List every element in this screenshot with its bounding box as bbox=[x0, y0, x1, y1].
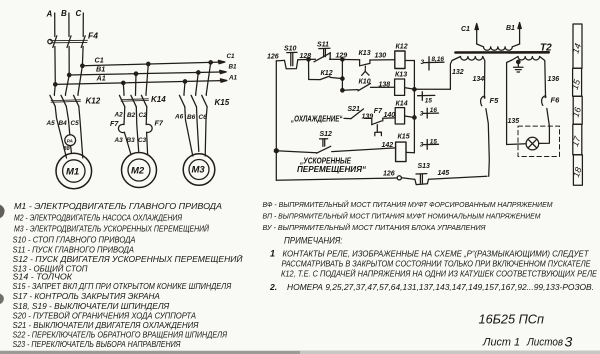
node rung K13 bbox=[341, 89, 344, 92]
motor M2 bbox=[122, 153, 157, 188]
motor M1 bbox=[56, 153, 92, 189]
ground symbol bbox=[514, 62, 523, 72]
svg-text:КОНТАКТЫ РЕЛЕ, ИЗОБРАЖЕННЫЕ: КОНТАКТЫ РЕЛЕ, ИЗОБРАЖЕННЫЕ НА СХЕМЕ „Р“… bbox=[283, 250, 590, 259]
svg-text:8,16: 8,16 bbox=[432, 56, 445, 63]
svg-text:K14: K14 bbox=[151, 95, 166, 104]
svg-text:S21 - ВЫКЛЮЧАТЕЛИ ДВИГАТЕЛЯ: S21 - ВЫКЛЮЧАТЕЛИ ДВИГАТЕЛЯ ОХЛАЖДЕНИЯ bbox=[13, 321, 200, 330]
svg-text:К12, Т.Е. С ПОДАЧЕЙ НАПРЯЖЕН: К12, Т.Е. С ПОДАЧЕЙ НАПРЯЖЕНИЯ НА ОДНИ И… bbox=[281, 270, 598, 279]
svg-text:В1: В1 bbox=[506, 25, 515, 32]
node: phase C to bus C1 bbox=[81, 64, 84, 67]
pushbutton S13 bbox=[415, 174, 429, 185]
svg-text:F7: F7 bbox=[110, 119, 119, 128]
svg-text:B3: B3 bbox=[127, 137, 136, 144]
svg-text:C: C bbox=[76, 9, 82, 18]
wire: drop A1 to K15 bbox=[183, 80, 186, 94]
transformer T2 core bbox=[456, 51, 549, 54]
svg-text:F7: F7 bbox=[374, 108, 383, 115]
svg-text:К12: К12 bbox=[396, 44, 408, 51]
svg-text:14: 14 bbox=[570, 42, 583, 55]
contactor K15 main contacts bbox=[179, 94, 207, 107]
svg-text:A3: A3 bbox=[114, 137, 124, 144]
ammeter PA bbox=[65, 135, 76, 146]
node: phase B to bus B1 bbox=[68, 73, 71, 76]
svg-text:C5: C5 bbox=[71, 120, 80, 127]
svg-text:1: 1 bbox=[270, 249, 275, 259]
scan smudge left 1 bbox=[0, 205, 5, 219]
svg-text:M3: M3 bbox=[192, 165, 206, 176]
svg-text:C1: C1 bbox=[461, 26, 470, 33]
svg-text:М1 - ЭЛЕКТРОДВИГАТЕЛЬ ГЛАВНОГ: М1 - ЭЛЕКТРОДВИГАТЕЛЬ ГЛАВНОГО ПРИВОДА bbox=[14, 202, 222, 211]
wire: left vertical rail bbox=[275, 61, 277, 180]
motor M3 bbox=[183, 154, 215, 186]
svg-text:130: 130 bbox=[375, 53, 387, 60]
svg-text:РАССМАТРИВАТЬ В ЗАКРЫТОМ СО: РАССМАТРИВАТЬ В ЗАКРЫТОМ СОСТОЯНИИ ТОЛЬК… bbox=[282, 260, 592, 269]
svg-text:S15 - ЗАПРЕТ ВКЛ ДГП ПРИ О: S15 - ЗАПРЕТ ВКЛ ДГП ПРИ ОТКРЫТОМ КОНИКЕ… bbox=[13, 282, 232, 291]
svg-text:A1: A1 bbox=[96, 74, 106, 83]
svg-text:B2: B2 bbox=[127, 112, 136, 119]
svg-text:3: 3 bbox=[565, 334, 573, 350]
svg-text:ВП - ВЫПРЯМИТЕЛЬНЫЙ МОСТ ПИТ: ВП - ВЫПРЯМИТЕЛЬНЫЙ МОСТ ПИТАНИЯ МУФТ НО… bbox=[263, 212, 541, 221]
node K14 output bbox=[413, 116, 416, 119]
svg-text:C3: C3 bbox=[138, 137, 147, 144]
svg-text:M1: M1 bbox=[66, 167, 79, 178]
contact S21 bbox=[344, 109, 372, 119]
svg-text:3: 3 bbox=[420, 142, 424, 149]
svg-text:126: 126 bbox=[383, 171, 395, 178]
lamp dashed enclosure bbox=[518, 126, 560, 156]
svg-text:3: 3 bbox=[420, 111, 424, 118]
schematic small labels bbox=[46, 9, 238, 178]
svg-text:126: 126 bbox=[267, 54, 279, 61]
node below 129 bbox=[341, 77, 344, 80]
svg-text:142: 142 bbox=[382, 142, 394, 149]
node K13 output bbox=[413, 88, 416, 91]
svg-text:S12: S12 bbox=[320, 131, 333, 138]
svg-text:PA: PA bbox=[67, 138, 73, 143]
svg-text:16: 16 bbox=[430, 107, 438, 114]
svg-text:134: 134 bbox=[473, 76, 485, 83]
svg-text:М2 - ЭЛЕКТРОДВИГАТЕЛЬ НАСОСА: М2 - ЭЛЕКТРОДВИГАТЕЛЬ НАСОСА ОХЛАЖДЕНИЯ bbox=[14, 213, 182, 222]
svg-text:К14: К14 bbox=[396, 101, 408, 108]
svg-text:ПРИМЕЧАНИЯ:: ПРИМЕЧАНИЯ: bbox=[284, 236, 343, 246]
svg-text:88: 88 bbox=[64, 146, 71, 152]
svg-text:15: 15 bbox=[425, 98, 433, 105]
coil K14 bbox=[395, 108, 404, 124]
phase line A bbox=[54, 13, 56, 37]
svg-text:К12: К12 bbox=[321, 70, 333, 77]
svg-text:K15: K15 bbox=[215, 98, 230, 107]
arrow C1 to transformer bbox=[475, 24, 478, 45]
svg-text:ПЕРЕМЕЩЕНИЯ“: ПЕРЕМЕЩЕНИЯ“ bbox=[297, 165, 366, 174]
svg-text:К13: К13 bbox=[359, 50, 371, 57]
svg-text:ВФ - ВЫПРЯМИТЕЛЬНЫЙ МОСТ ПИТ: ВФ - ВЫПРЯМИТЕЛЬНЫЙ МОСТ ПИТАНИЯ МУФТ ФО… bbox=[263, 200, 553, 209]
contactor K12 main contacts bbox=[50, 94, 81, 106]
svg-text:F5: F5 bbox=[490, 96, 500, 105]
svg-text:B: B bbox=[61, 9, 67, 18]
node S12 rung bbox=[274, 149, 278, 153]
svg-text:S23 - ПЕРЕКЛЮЧАТЕЛЬ ВЫБОРА Н: S23 - ПЕРЕКЛЮЧАТЕЛЬ ВЫБОРА НАПРАВЛЕНИЯ bbox=[13, 340, 181, 349]
wire: drop C1 to K14 bbox=[146, 62, 150, 94]
coil K12 bbox=[395, 51, 405, 69]
svg-text:A5: A5 bbox=[46, 120, 56, 127]
svg-text:S14 - ТОЛЧОК: S14 - ТОЛЧОК bbox=[13, 273, 74, 282]
wire: bottom rail bbox=[276, 176, 487, 181]
svg-text:F6: F6 bbox=[551, 96, 561, 105]
svg-text:15: 15 bbox=[570, 77, 583, 91]
svg-text:„ОХЛАЖДЕНИЕ“: „ОХЛАЖДЕНИЕ“ bbox=[290, 115, 342, 124]
svg-text:15: 15 bbox=[430, 138, 438, 145]
svg-text:145: 145 bbox=[438, 170, 450, 177]
svg-text:132: 132 bbox=[452, 69, 464, 76]
bus A1 bbox=[55, 79, 227, 85]
scan smudge left 2 bbox=[0, 294, 4, 305]
svg-text:17: 17 bbox=[570, 134, 583, 148]
svg-text:16: 16 bbox=[571, 106, 584, 119]
svg-text:НОМЕРА 9,25,27,37,47,57,64,13: НОМЕРА 9,25,27,37,47,57,64,131,137,143,1… bbox=[287, 283, 594, 292]
node: phase A to bus A1 bbox=[54, 83, 57, 86]
svg-text:C1: C1 bbox=[95, 56, 104, 65]
svg-text:A6: A6 bbox=[174, 114, 184, 121]
svg-text:S10: S10 bbox=[284, 46, 297, 53]
svg-text:S10 - СТОП ГЛАВНОГО ПРИВОДА: S10 - СТОП ГЛАВНОГО ПРИВОДА bbox=[13, 236, 136, 245]
pushbutton S12 bbox=[276, 139, 395, 154]
svg-text:B1: B1 bbox=[96, 65, 105, 74]
wire: bus to transformer secondary bbox=[414, 88, 450, 90]
thermal relay F7 heaters and K14 to M2 leads bbox=[118, 107, 152, 154]
sheet ref mark 3/16 bbox=[423, 108, 438, 118]
phase line C bbox=[82, 13, 84, 37]
svg-text:3: 3 bbox=[421, 59, 425, 66]
bus B1 bbox=[69, 70, 226, 75]
svg-text:138: 138 bbox=[379, 81, 391, 88]
breaker F4 bbox=[48, 36, 88, 48]
svg-text:C6: C6 bbox=[199, 114, 208, 121]
sheet ref mark 3/15 bbox=[423, 140, 438, 150]
svg-text:S17 - КОНТРОЛЬ ЗАКРЫТИЯ ЭКРА: S17 - КОНТРОЛЬ ЗАКРЫТИЯ ЭКРАНА bbox=[13, 292, 160, 301]
svg-text:B1: B1 bbox=[229, 64, 238, 71]
svg-text:C2: C2 bbox=[139, 112, 148, 119]
thermal contact F7 (control) bbox=[372, 118, 395, 136]
svg-text:A2: A2 bbox=[114, 112, 124, 119]
phase line B bbox=[68, 13, 70, 37]
svg-text:S11: S11 bbox=[317, 42, 329, 49]
sheet ref mark 15 bbox=[418, 92, 435, 101]
svg-text:129: 129 bbox=[336, 53, 348, 60]
svg-text:136: 136 bbox=[548, 76, 560, 83]
node transformer ground tap bbox=[517, 60, 520, 63]
wire: relay output bus bbox=[405, 61, 415, 153]
svg-text:M2: M2 bbox=[131, 166, 145, 177]
svg-text:К13: К13 bbox=[395, 72, 407, 79]
svg-text:К15: К15 bbox=[398, 134, 410, 141]
svg-text:М3 - ЭЛЕКТРОДВИГАТЕЛЬ УСКОРЕН: М3 - ЭЛЕКТРОДВИГАТЕЛЬ УСКОРЕННЫХ ПЕРЕМЕЩ… bbox=[14, 225, 209, 234]
svg-text:F4: F4 bbox=[88, 31, 98, 41]
svg-text:140: 140 bbox=[384, 112, 396, 119]
svg-text:F7: F7 bbox=[155, 119, 164, 128]
arrow B1 to transformer bbox=[518, 23, 521, 45]
svg-text:S22 - ПЕРЕКЛЮЧАТЕЛЬ ОБРАТНОГО: S22 - ПЕРЕКЛЮЧАТЕЛЬ ОБРАТНОГО ВРАЩЕНИЯ Ш… bbox=[13, 331, 228, 340]
node 129 bbox=[341, 58, 344, 61]
wire: vertical under 129 bbox=[341, 59, 343, 90]
pushbutton S10 bbox=[285, 52, 298, 68]
svg-text:S13: S13 bbox=[418, 163, 431, 170]
svg-text:S11 - ПУСК ГЛАВНОГО ПРИВОДА: S11 - ПУСК ГЛАВНОГО ПРИВОДА bbox=[13, 245, 135, 254]
svg-text:Лист 1: Лист 1 bbox=[482, 337, 520, 349]
scan shadow bottom bbox=[0, 351, 600, 354]
svg-text:B6: B6 bbox=[187, 114, 196, 121]
svg-text:S18, S19 - ВЫКЛЮЧАТЕЛИ ШПИНД: S18, S19 - ВЫКЛЮЧАТЕЛИ ШПИНДЕЛЯ bbox=[13, 302, 170, 311]
wire: drop B1 to K15 bbox=[196, 71, 200, 94]
wire: drop B1 to K14 bbox=[134, 72, 137, 94]
bus C1 bbox=[82, 60, 225, 65]
contactor K14 main contacts bbox=[119, 94, 148, 107]
svg-text:128: 128 bbox=[300, 53, 312, 60]
wire: K12 holding branch bbox=[309, 59, 343, 79]
svg-text:Листов: Листов bbox=[526, 337, 563, 349]
svg-text:ВУ - ВЫПРЯМИТЕЛЬНЫЙ МОСТ ПИТ: ВУ - ВЫПРЯМИТЕЛЬНЫЙ МОСТ ПИТАНИЯ БЛОКА У… bbox=[263, 223, 486, 232]
svg-text:A: A bbox=[46, 10, 53, 19]
transformer T2 secondary 2 bbox=[507, 57, 546, 145]
wire lamp right to F6 bbox=[539, 126, 550, 143]
contact K10 bbox=[342, 83, 394, 90]
svg-text:S12 - ПУСК ДВИГАТЕЛЯ УСКОРЕН: S12 - ПУСК ДВИГАТЕЛЯ УСКОРЕННЫХ ПЕРЕМЕЩЕ… bbox=[13, 255, 243, 264]
svg-text:Т2: Т2 bbox=[540, 43, 552, 54]
wire: K15 to motor M3 leads bbox=[185, 107, 207, 156]
svg-text:K12: K12 bbox=[86, 97, 101, 106]
wire: drop C1 to K15 bbox=[206, 61, 212, 94]
contact K13 (relay contact) bbox=[360, 60, 370, 76]
transformer T2 secondary 1 bbox=[450, 57, 484, 97]
node 128 bbox=[307, 58, 310, 61]
wire: K12 to motor M1 leads bbox=[55, 106, 83, 158]
svg-text:S20 - ПУТЕВОЙ ОГРАНИЧЕНИЯ ХО: S20 - ПУТЕВОЙ ОГРАНИЧЕНИЯ ХОДА СУППОРТА bbox=[13, 312, 197, 321]
svg-text:16Б25 ПСп: 16Б25 ПСп bbox=[479, 312, 545, 327]
svg-text:К10: К10 bbox=[359, 79, 371, 86]
fuse F6 bbox=[542, 95, 550, 126]
coil K15 bbox=[396, 142, 406, 162]
wire: drop A1 to K14 bbox=[122, 81, 125, 94]
svg-text:A1: A1 bbox=[228, 74, 238, 81]
lamp EL bbox=[526, 137, 539, 150]
coil K13 bbox=[395, 79, 405, 95]
svg-text:18: 18 bbox=[571, 166, 584, 179]
svg-text:135: 135 bbox=[508, 118, 520, 125]
svg-text:C1: C1 bbox=[227, 53, 236, 60]
wire: control top rail bbox=[276, 59, 395, 61]
zone strip bbox=[573, 24, 583, 185]
svg-text:2.: 2. bbox=[269, 282, 277, 292]
fuse F5 bbox=[481, 96, 490, 176]
svg-text:S21: S21 bbox=[348, 106, 361, 113]
pushbutton S11 bbox=[314, 48, 331, 62]
transformer T2 primary bbox=[477, 44, 520, 50]
svg-text:139: 139 bbox=[362, 114, 374, 121]
wire to lamp bbox=[507, 143, 526, 146]
sheet ref mark 3/8,16 bbox=[424, 57, 444, 70]
svg-text:B4: B4 bbox=[59, 120, 68, 127]
